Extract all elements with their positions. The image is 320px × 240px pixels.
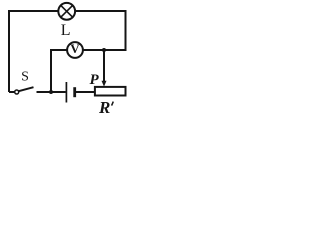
svg-text:L: L [61,22,71,39]
svg-text:V: V [70,41,80,56]
svg-text:R: R [98,98,110,114]
svg-text:P: P [90,72,100,88]
svg-text:S: S [21,69,29,84]
